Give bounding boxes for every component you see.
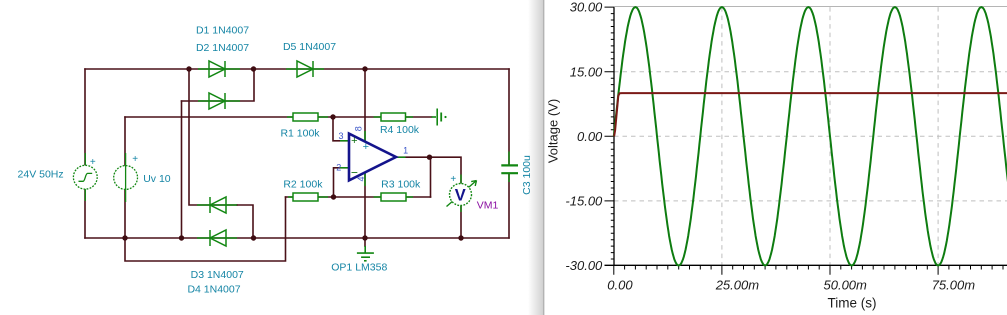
source VG1 24V 50Hz xyxy=(73,153,97,201)
wire op-amp V+ pin8 xyxy=(364,69,366,143)
wire R2 R3 row xyxy=(286,196,431,198)
chart y axis xyxy=(613,7,615,265)
diode D4 xyxy=(197,230,237,246)
svg-text:OP1 LM358: OP1 LM358 xyxy=(331,262,387,274)
svg-text:VM1: VM1 xyxy=(477,199,499,211)
svg-text:50.00m: 50.00m xyxy=(824,277,868,292)
junction ground node xyxy=(362,235,367,240)
voltmeter VM1 xyxy=(447,175,477,213)
junction R2 / R3 / pin2 node xyxy=(331,194,336,199)
junction top rail / op-amp supply xyxy=(362,66,367,71)
resistor R2 xyxy=(288,193,328,201)
junction D3 cathode / bottom rail xyxy=(251,235,256,240)
resistor R1 xyxy=(287,113,328,121)
junction op-amp output node xyxy=(427,155,432,160)
svg-text:+: + xyxy=(363,141,369,153)
chart vertical dashed gridlines xyxy=(722,7,938,265)
green sine curve xyxy=(614,7,1007,265)
junction R1 / R4 / pin3 node xyxy=(330,114,335,119)
svg-text:1: 1 xyxy=(403,145,408,155)
wire R4 row xyxy=(333,116,432,118)
wire C3 branch xyxy=(508,69,510,238)
wire R3 right to output xyxy=(430,157,432,197)
svg-text:D1 1N4007: D1 1N4007 xyxy=(196,25,249,37)
svg-text:D2 1N4007: D2 1N4007 xyxy=(196,42,249,54)
wire D3 cathode to bottom rail xyxy=(237,205,253,238)
diode D1 xyxy=(198,61,240,77)
chart x axis xyxy=(605,264,1007,266)
svg-text:75.00m: 75.00m xyxy=(932,277,976,292)
chart x ticks xyxy=(614,265,1003,275)
wire VM1 bottom xyxy=(460,204,462,238)
chart x axis labels xyxy=(607,277,975,292)
wire D1 anode drop to D3 xyxy=(189,69,237,205)
svg-text:4: 4 xyxy=(356,176,366,181)
svg-text:-30.00: -30.00 xyxy=(565,258,603,273)
svg-text:C3 100u: C3 100u xyxy=(521,155,533,195)
svg-text:25.00m: 25.00m xyxy=(715,277,760,292)
chart panel left edge gradient xyxy=(528,0,544,315)
svg-text:+: + xyxy=(450,174,456,185)
op-amp pin numbers xyxy=(336,126,408,181)
wire output node to VM1 xyxy=(396,157,461,184)
svg-text:3: 3 xyxy=(338,131,343,141)
wire D2 row xyxy=(182,69,255,101)
svg-text:+: + xyxy=(132,154,138,165)
svg-text:D4 1N4007: D4 1N4007 xyxy=(187,284,240,296)
junction D2 anode / bottom rail xyxy=(179,235,184,240)
junction D1 cathode / D5 anode xyxy=(251,66,256,71)
chart horizontal dashed gridlines xyxy=(614,72,1007,201)
resistor R4 xyxy=(374,113,414,121)
chart y axis labels xyxy=(565,0,603,273)
wire D2 anode column xyxy=(181,101,183,238)
wire R1 row xyxy=(125,116,333,118)
junction VM1 bottom / bottom rail xyxy=(458,235,463,240)
diode D5 xyxy=(286,61,324,77)
svg-text:R2 100k: R2 100k xyxy=(283,179,323,191)
svg-text:-15.00: -15.00 xyxy=(565,194,603,209)
svg-text:R3 100k: R3 100k xyxy=(381,179,421,191)
dark red output curve xyxy=(614,93,1007,136)
ground xyxy=(357,246,374,261)
diode D3 xyxy=(197,197,237,213)
svg-text:24V 50Hz: 24V 50Hz xyxy=(18,168,64,180)
source Uv 10 xyxy=(114,153,138,202)
wire R1 junction to pin3 xyxy=(333,117,349,141)
capacitor C3 xyxy=(501,152,518,183)
op-amp OP1 xyxy=(340,131,406,186)
svg-text:+: + xyxy=(351,135,357,147)
svg-text:0.00: 0.00 xyxy=(577,129,603,144)
wire left rail with VG1 gap xyxy=(84,69,86,238)
wire Uv column xyxy=(124,117,126,238)
svg-text:Uv 10: Uv 10 xyxy=(143,173,171,185)
svg-text:0.00: 0.00 xyxy=(607,277,633,292)
svg-text:R1 100k: R1 100k xyxy=(280,128,320,140)
wire bottom rail xyxy=(85,237,509,239)
svg-text:+: + xyxy=(90,157,96,168)
resistor R3 xyxy=(374,193,414,201)
svg-text:D3 1N4007: D3 1N4007 xyxy=(191,269,244,281)
svg-text:Time (s): Time (s) xyxy=(828,296,877,311)
junction Uv bottom / lower loop xyxy=(122,235,127,240)
svg-text:15.00: 15.00 xyxy=(570,64,603,79)
wire top rail xyxy=(85,68,509,70)
junction D1 anode / top rail xyxy=(186,66,191,71)
svg-text:D5 1N4007: D5 1N4007 xyxy=(283,41,336,53)
diode D2 xyxy=(198,93,240,109)
schematic labels xyxy=(18,25,533,296)
chart y ticks xyxy=(605,7,615,265)
svg-text:30.00: 30.00 xyxy=(570,0,603,15)
svg-text:V: V xyxy=(455,187,466,205)
wire lower loop to R2 xyxy=(125,197,286,261)
svg-text:8: 8 xyxy=(353,126,363,131)
svg-text:Voltage (V): Voltage (V) xyxy=(546,99,561,163)
battery V+ symbol xyxy=(432,109,442,126)
svg-text:2: 2 xyxy=(336,162,341,172)
wire op-amp pin4 to ground rail xyxy=(364,174,366,246)
svg-text:R4 100k: R4 100k xyxy=(380,124,420,136)
chart top frame line xyxy=(614,6,1007,8)
wire R2 junction to pin2 xyxy=(334,168,350,197)
